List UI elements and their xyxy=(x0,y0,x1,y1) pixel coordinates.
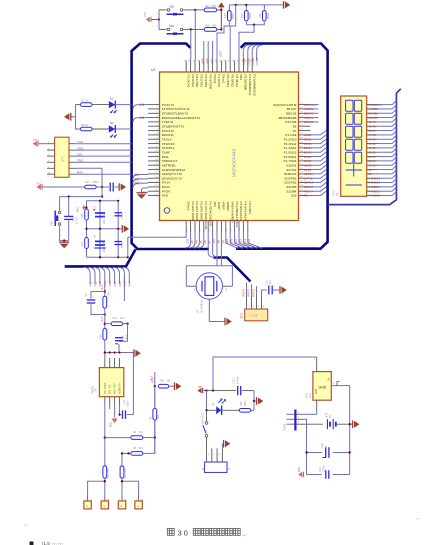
svg-text:Po.7: Po.7 xyxy=(129,281,132,287)
wire R3 row xyxy=(122,452,131,454)
junction xyxy=(121,452,123,454)
junction xyxy=(121,480,123,482)
wire rail gnd xyxy=(128,352,133,355)
wire switch to J3 xyxy=(206,437,208,448)
wire S18 to node xyxy=(183,9,195,11)
wire cap col xyxy=(261,290,263,296)
svg-text:VREF1: VREF1 xyxy=(247,288,250,297)
junction xyxy=(118,351,120,353)
resistor R5 xyxy=(103,296,107,308)
op-amp U4 INA321 body xyxy=(99,368,123,397)
U2 right pins xyxy=(299,103,311,196)
wire INA rail xyxy=(105,352,129,354)
wire S18 node down to pin xyxy=(194,10,196,61)
svg-text:P5.7/R33: P5.7/R33 xyxy=(226,75,230,88)
svg-text:5V: 5V xyxy=(199,385,203,389)
svg-text:R23: R23 xyxy=(240,13,244,18)
wire CON3 pin1 xyxy=(296,413,303,415)
wire bus branch to REF connector xyxy=(214,258,251,282)
capacitor C15 xyxy=(115,337,123,339)
svg-text:S14: S14 xyxy=(244,238,247,243)
svg-text:P5.8/R23: P5.8/R23 xyxy=(230,75,234,88)
wire reg pin3 xyxy=(316,357,318,372)
capacitor C8 xyxy=(114,212,122,214)
wire R25 top lead xyxy=(263,5,265,10)
svg-text:STLB0/4V3/T M: STLB0/4V3/T M xyxy=(162,124,184,128)
resistor R15 xyxy=(85,238,89,249)
junction xyxy=(305,451,307,453)
svg-text:680: 680 xyxy=(212,23,217,27)
wire C15 branch xyxy=(119,324,128,342)
svg-text:10uF 16V: 10uF 16V xyxy=(103,213,106,224)
svg-text:S12: S12 xyxy=(235,238,238,243)
svg-text:WY1: WY1 xyxy=(305,392,309,398)
svg-text:VCC: VCC xyxy=(36,181,42,185)
junction xyxy=(117,200,119,202)
connector JP1 body xyxy=(55,137,69,177)
junction xyxy=(235,4,237,6)
svg-text:3 0: 3 0 xyxy=(178,528,188,537)
wire R11 row xyxy=(105,323,111,325)
svg-text:0.1uF: 0.1uF xyxy=(121,241,124,248)
wire R4 row xyxy=(105,437,131,439)
wire R22 top lead xyxy=(228,5,230,10)
ground left pins xyxy=(137,192,147,194)
wire VCC to R17 xyxy=(43,186,85,188)
wire decouple top rail xyxy=(87,200,119,202)
resistor R25 xyxy=(263,10,267,21)
svg-text:4.7uF: 4.7uF xyxy=(75,217,79,224)
junction xyxy=(253,400,255,402)
resistor R10 xyxy=(103,328,107,340)
svg-text:P5.5/COM0: P5.5/COM0 xyxy=(244,75,248,91)
svg-text:3V: 3V xyxy=(329,415,332,418)
svg-text:100uF 16V: 100uF 16V xyxy=(103,241,106,253)
connector J5 pad xyxy=(101,501,108,509)
connector REF1 body xyxy=(245,309,268,321)
wire JP1 row6 to bus xyxy=(76,173,132,175)
wire crystal case gnd xyxy=(208,299,210,316)
svg-text:SW-SPST: SW-SPST xyxy=(202,412,205,424)
label footnote xyxy=(30,542,34,545)
svg-text:VCC: VCC xyxy=(298,467,301,472)
svg-text:SDWN V+: SDWN V+ xyxy=(119,382,122,394)
junction xyxy=(118,414,120,416)
junction xyxy=(154,385,156,387)
wire bus entries bottom xyxy=(84,267,130,284)
svg-text:Ps.4/A4 DAC0: Ps.4/A4 DAC0 xyxy=(195,202,199,222)
svg-text:P1.0/TA0: P1.0/TA0 xyxy=(217,75,221,88)
wire S19 node down to pin xyxy=(190,29,192,60)
svg-text:JP1: JP1 xyxy=(61,156,65,162)
resistor R4 xyxy=(131,436,143,440)
junction xyxy=(99,200,101,202)
power VCC JP1 xyxy=(37,141,39,147)
svg-text:P1.7/CA1: P1.7/CA1 xyxy=(186,75,190,88)
capacitor C20 xyxy=(268,286,270,295)
wire bus entries to left pins xyxy=(133,105,148,188)
svg-text:R22 100K: R22 100K xyxy=(124,468,127,479)
switch SW1 push-button xyxy=(58,211,60,213)
connector J3 body xyxy=(205,462,228,473)
svg-text:P1.5/S13: P1.5/S13 xyxy=(284,150,297,154)
wire JP1 row5 xyxy=(76,168,102,196)
svg-text:COM0: COM0 xyxy=(242,57,246,65)
svg-text:3B A0?: 3B A0? xyxy=(286,107,296,111)
power VCC reset xyxy=(41,184,43,190)
wire bottom pins to left bus entries xyxy=(185,232,204,248)
wire R23 bottom lead xyxy=(245,22,247,25)
svg-text:.,: ., xyxy=(242,531,246,537)
svg-text:VCC: VCC xyxy=(77,207,80,212)
resistor R23 xyxy=(245,10,249,21)
wire main col xyxy=(104,284,106,296)
svg-text:Po.1: Po.1 xyxy=(101,284,104,290)
wire main col 3 xyxy=(104,340,106,358)
svg-text:TCK: TCK xyxy=(77,140,83,144)
label U2 top pin names xyxy=(186,75,256,96)
wire rc block xyxy=(91,292,105,299)
svg-text:P4.4/S14/A14: P4.4/S14/A14 xyxy=(244,202,248,221)
svg-text:VeR: VeR xyxy=(226,239,229,244)
wire bus bottom-left segment with entries xyxy=(65,249,136,266)
svg-text:Po.4: Po.4 xyxy=(101,316,104,322)
wire bus lower-right horizontal xyxy=(236,247,318,250)
junction xyxy=(127,256,129,258)
ground C20 xyxy=(279,286,281,294)
svg-text:AETRFBL: AETRFBL xyxy=(162,163,176,167)
label caption Fig 30 xyxy=(167,528,246,537)
regulator WY1 body xyxy=(313,372,331,401)
power VCC decouple xyxy=(83,207,87,209)
svg-text:C13: C13 xyxy=(319,467,322,472)
ground reset rc xyxy=(118,183,120,191)
label bottom bus nets xyxy=(89,277,131,287)
connector CON3 xyxy=(294,410,296,431)
svg-text:P1.6: P1.6 xyxy=(206,57,210,63)
connector J6 pad xyxy=(118,501,125,509)
svg-text:R12 100K: R12 100K xyxy=(107,468,110,479)
svg-text:□□ □□: □□ □□ xyxy=(52,542,63,545)
wire C20 to gnd xyxy=(272,289,279,291)
svg-text:R10: R10 xyxy=(100,334,103,339)
svg-text:STLP0/CTLPV1U M: STLP0/CTLPV1U M xyxy=(162,107,190,111)
capacitor C4 electrolytic xyxy=(95,212,105,214)
svg-text:VCC: VCC xyxy=(219,50,223,57)
ground R13 xyxy=(174,382,176,390)
resistor R22b xyxy=(120,466,124,478)
junction xyxy=(349,451,351,453)
wire main col 2 xyxy=(104,308,106,328)
svg-text:PV.1V: PV.1V xyxy=(162,181,171,185)
connector JP1 pins xyxy=(47,142,76,175)
node chip index circle xyxy=(164,208,170,214)
label U2 left pin names xyxy=(162,103,200,198)
svg-text:OUT: OUT xyxy=(314,388,318,394)
wire R23 top lead xyxy=(245,5,247,10)
svg-text:P1.2/S10: P1.2/S10 xyxy=(284,137,297,141)
wire left col xyxy=(206,391,208,411)
capacitor C11 xyxy=(122,410,124,419)
svg-text:DVcc1: DVcc1 xyxy=(222,75,226,84)
svg-text:Po 3: Po 3 xyxy=(151,377,154,383)
wire reg out col xyxy=(349,386,351,475)
connector J4 pad xyxy=(84,501,91,509)
capacitor C3 xyxy=(87,299,96,301)
wire to S19 xyxy=(159,28,167,30)
power 5V symbol top-left xyxy=(150,17,152,23)
wire decouple bottom rail xyxy=(87,256,128,258)
svg-text:U1: U1 xyxy=(335,192,339,196)
junction xyxy=(158,18,160,20)
wire right col xyxy=(154,372,156,453)
junction xyxy=(104,436,106,438)
svg-text:— 2 3 4: — 2 3 4 xyxy=(248,314,258,318)
svg-text:S18: S18 xyxy=(169,5,174,9)
svg-text:R03: R03 xyxy=(239,75,243,81)
wire LED D1 leads xyxy=(92,104,109,106)
ground LED block xyxy=(71,116,75,118)
ground crystal xyxy=(224,318,226,326)
wire switch feed vertical xyxy=(158,10,160,30)
capacitor C12 xyxy=(325,447,327,458)
junction xyxy=(245,4,247,6)
svg-text:TDI: TDI xyxy=(77,152,82,156)
junction xyxy=(127,452,129,454)
label net names top xyxy=(201,57,259,65)
capacitor C17 xyxy=(109,183,111,192)
power arrow right top rail xyxy=(283,1,285,9)
wire decouple cols xyxy=(86,201,88,257)
svg-text:TLMF: TLMF xyxy=(162,150,170,154)
resistor R13 xyxy=(158,384,169,388)
svg-text:S6: S6 xyxy=(293,124,297,128)
wire CON3 pin3 xyxy=(296,423,303,425)
power VCC arrow up xyxy=(218,2,224,6)
wire right pins to bus xyxy=(311,105,327,196)
junction xyxy=(212,389,214,391)
resistor R16 xyxy=(85,209,89,220)
junction xyxy=(104,313,106,315)
wire U4 pin stub xyxy=(109,404,111,409)
svg-text:P1.5: P1.5 xyxy=(201,57,205,63)
junction xyxy=(104,480,106,482)
svg-text:SW1: SW1 xyxy=(50,220,54,226)
mcu U2 MSP430F449 body xyxy=(160,72,299,221)
capacitor C14 xyxy=(64,215,73,217)
svg-text:32.768kHz: 32.768kHz xyxy=(200,299,204,313)
svg-text:470uF: 470uF xyxy=(236,376,240,384)
svg-text:uF: uF xyxy=(325,445,328,448)
wire cap rows xyxy=(307,452,322,454)
wire gnd stub xyxy=(254,400,256,402)
svg-text:S04: S04 xyxy=(248,238,251,243)
junction xyxy=(154,436,156,438)
svg-text:680K: 680K xyxy=(266,13,270,19)
resistor R1 xyxy=(80,103,92,107)
svg-text:680: 680 xyxy=(212,4,217,8)
resistor R3 xyxy=(131,452,143,456)
wire C11 branch xyxy=(120,404,122,415)
capacitor C13 xyxy=(325,470,327,479)
svg-text:P2.3/TB2: P2.3/TB2 xyxy=(204,75,208,88)
svg-text:MSP430F449: MSP430F449 xyxy=(232,148,237,177)
wire LED common xyxy=(75,105,77,129)
svg-text:DVcc2: DVcc2 xyxy=(213,75,217,84)
wire R17 to node xyxy=(96,186,109,188)
svg-text:P1.7: P1.7 xyxy=(210,57,214,63)
svg-text:P4.1/S04: P4.1/S04 xyxy=(248,202,252,215)
ground INA rail xyxy=(133,349,135,357)
svg-text:REF1: REF1 xyxy=(241,312,244,319)
wire VeREF col xyxy=(123,284,125,301)
svg-text:Po.1: Po.1 xyxy=(94,281,97,287)
ground button xyxy=(59,241,69,243)
wire reg pin1 down xyxy=(316,400,318,411)
svg-text:R1: R1 xyxy=(304,194,308,198)
svg-text:COM2: COM2 xyxy=(251,57,255,65)
svg-text:VREF+/VeREF+: VREF+/VeREF+ xyxy=(230,202,234,224)
capacitor C112 xyxy=(237,386,239,395)
svg-text:P2.4/TXD0: P2.4/TXD0 xyxy=(208,75,212,90)
wire gnd rows xyxy=(142,188,149,190)
wire R2 col xyxy=(121,453,123,466)
junction xyxy=(104,290,106,292)
connector J7 pad xyxy=(135,501,142,509)
svg-text:C11: C11 xyxy=(123,399,126,404)
label LCD pin nets xyxy=(369,103,383,198)
svg-text:P2.1/TB0: P2.1/TB0 xyxy=(195,75,199,88)
wire pin23 long run xyxy=(128,232,186,237)
junction xyxy=(63,239,65,241)
svg-text:.,: ., xyxy=(24,521,27,527)
U2 bottom pins xyxy=(186,221,250,233)
svg-text:R21: R21 xyxy=(205,4,210,8)
wire button row xyxy=(60,196,102,198)
junction xyxy=(190,28,192,30)
svg-text:VCC: VCC xyxy=(33,138,39,142)
svg-text:1117: 1117 xyxy=(308,392,312,398)
svg-text:C12: C12 xyxy=(321,443,324,448)
svg-text:R18: R18 xyxy=(240,401,243,406)
wire bus entries to top pins xyxy=(243,45,263,61)
junction xyxy=(253,24,255,26)
label U2 right pin names xyxy=(273,103,297,198)
junction xyxy=(205,409,207,411)
svg-text:8 M: 8 M xyxy=(139,103,145,107)
svg-text:D2: D2 xyxy=(110,121,114,125)
svg-text:4u7: 4u7 xyxy=(125,334,128,339)
svg-text:VIN– RG: VIN– RG xyxy=(109,384,112,394)
LCD segments xyxy=(346,100,363,185)
resistor R12 xyxy=(103,466,107,478)
wire cap row xyxy=(207,390,237,392)
junction xyxy=(85,206,87,208)
ground decouple xyxy=(121,225,123,233)
junction xyxy=(109,351,111,353)
svg-text:XIN: XIN xyxy=(213,202,217,207)
svg-text:VR-: VR- xyxy=(222,239,225,243)
svg-text:R16: R16 xyxy=(81,213,84,218)
svg-text:P2.0/TA2: P2.0/TA2 xyxy=(191,75,195,88)
junction xyxy=(349,423,351,425)
svg-text:C112: C112 xyxy=(232,377,236,384)
power 5V symbol xyxy=(202,388,204,394)
wire battery to gnd xyxy=(337,423,348,425)
wire R25 bottom lead xyxy=(246,22,264,25)
svg-text:P2.2/TB1: P2.2/TB1 xyxy=(200,75,204,88)
wire 5V rail top xyxy=(213,357,317,391)
connector terminal pins xyxy=(85,495,139,502)
capacitor C9 xyxy=(114,241,122,243)
connector J3 pins xyxy=(207,448,223,462)
ground battery xyxy=(352,420,354,428)
junction xyxy=(126,323,128,325)
wire bus loop left segment xyxy=(132,44,209,250)
wire REF verticals xyxy=(247,283,257,297)
svg-text:Po.5: Po.5 xyxy=(114,281,117,287)
junction xyxy=(194,9,196,11)
wire resistor top rail xyxy=(229,4,283,6)
label right pin nets xyxy=(304,103,317,198)
resistor R2 xyxy=(80,127,92,131)
wire VCC to JP1 xyxy=(39,143,48,145)
junction xyxy=(205,389,207,391)
svg-text:P1.1/S0/A12 DAC1: P1.1/S0/A12 DAC1 xyxy=(235,202,239,228)
wire right col xyxy=(253,391,255,411)
svg-text:1M: 1M xyxy=(167,380,170,383)
wire R9 leads xyxy=(154,386,156,409)
svg-text:4u7: 4u7 xyxy=(269,279,272,284)
wire crystal loop xyxy=(216,232,218,266)
wire C17 to gnd xyxy=(115,186,119,188)
svg-text:Ps.5/A5 DAC0: Ps.5/A5 DAC0 xyxy=(200,202,204,222)
svg-text:XIN: XIN xyxy=(213,239,216,243)
svg-text:VeREF-: VeREF- xyxy=(226,202,230,213)
power VCC U4 xyxy=(112,419,118,424)
LED D1 xyxy=(109,101,116,108)
connector U1 LCD body xyxy=(341,96,367,196)
battery WT2 xyxy=(326,419,328,429)
junction xyxy=(68,195,70,197)
svg-text:R1 1K: R1 1K xyxy=(81,98,88,102)
svg-text:680K: 680K xyxy=(231,13,235,19)
svg-text:S13: S13 xyxy=(239,238,242,243)
svg-text:VR+: VR+ xyxy=(231,238,234,243)
svg-text:820: 820 xyxy=(157,414,160,419)
svg-text:TDO: TDO xyxy=(77,159,84,163)
svg-text:LCD: LCD xyxy=(331,191,335,196)
svg-text:R22: R22 xyxy=(223,13,227,18)
switch S1 SPST xyxy=(205,422,208,425)
wire to S18 xyxy=(159,9,167,11)
wire button top xyxy=(59,197,61,212)
svg-text:VREF2: VREF2 xyxy=(252,288,255,297)
svg-text:Ps.3/A3 DAC0: Ps.3/A3 DAC0 xyxy=(191,202,195,222)
wire reset node vertical xyxy=(101,168,103,196)
LED D2 xyxy=(109,125,116,132)
wire C14 leads xyxy=(68,197,70,217)
svg-text:.,: ., xyxy=(416,515,419,521)
svg-text:100nF: 100nF xyxy=(126,400,129,407)
svg-text:680K: 680K xyxy=(93,180,99,184)
wire JP1 rows to bus xyxy=(76,144,132,163)
svg-text:P4.0/S13/A13: P4.0/S13/A13 xyxy=(239,202,243,221)
wire C11 to gnd rail xyxy=(127,414,134,416)
svg-text:3C0/TB2: 3C0/TB2 xyxy=(284,181,296,185)
U2 top pins xyxy=(185,59,253,72)
wire R21 to rail xyxy=(217,9,222,11)
